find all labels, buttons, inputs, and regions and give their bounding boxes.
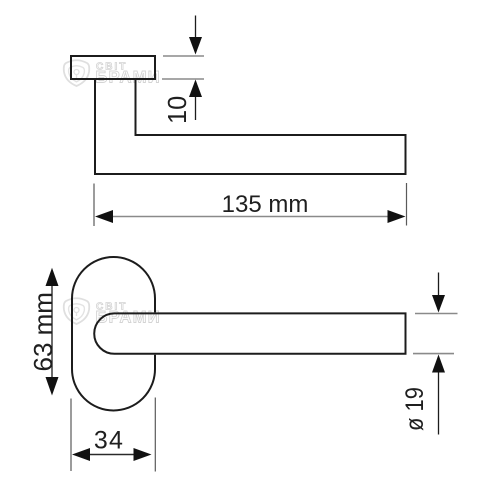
dimension 63mm: lower arrowhead pointing down bbox=[46, 377, 59, 396]
svg-text:10: 10 bbox=[164, 96, 192, 124]
dimension ø19: upper arrowhead pointing down bbox=[432, 295, 445, 313]
watermark top: shield icon bbox=[64, 60, 90, 86]
dimension 135mm: left arrowhead bbox=[95, 210, 113, 223]
svg-text:ø 19: ø 19 bbox=[401, 387, 429, 431]
oval rose (front view stadium, right edge interrupted by grip) bbox=[72, 257, 155, 410]
dimension 135mm: right arrowhead bbox=[388, 210, 406, 223]
dimension 135mm: right extension line bbox=[406, 183, 408, 226]
svg-text:63 mm: 63 mm bbox=[28, 292, 58, 371]
handle grip (front view) bbox=[94, 313, 405, 353]
dimension 10: upper arrow line bbox=[195, 16, 197, 38]
dimension 10: upper arrowhead pointing down bbox=[189, 37, 202, 55]
dimension 34: right arrowhead bbox=[134, 448, 152, 461]
dimension 10: extension line at rose top bbox=[163, 55, 204, 57]
watermark bottom: shield icon bbox=[64, 298, 90, 324]
dimension 135mm: dimension line bbox=[108, 216, 392, 218]
svg-text:135 mm: 135 mm bbox=[222, 191, 309, 218]
svg-text:БРАМИ: БРАМИ bbox=[96, 309, 161, 327]
dimension 10: lower arrow line bbox=[195, 97, 197, 120]
dimension 63mm: upper arrow line bbox=[51, 286, 53, 377]
rose plate (side view rectangle) bbox=[71, 56, 155, 79]
handle neck and lever outline (side view) bbox=[95, 79, 406, 174]
svg-text:34: 34 bbox=[94, 427, 124, 455]
dimension ø19: lower arrow line bbox=[438, 373, 440, 435]
dimension 135mm: left extension line bbox=[93, 184, 95, 227]
dimension 34: left arrowhead bbox=[72, 448, 90, 461]
dimension ø19: bottom extension line bbox=[413, 353, 454, 355]
dimension 34: right extension line bbox=[154, 398, 156, 472]
dimension 10: lower arrowhead pointing up bbox=[189, 80, 202, 98]
dimension ø19: lower arrowhead pointing up bbox=[432, 355, 445, 373]
dimension 10: extension line at rose bottom bbox=[162, 78, 204, 80]
dimension 34: dimension line bbox=[85, 454, 140, 456]
dimension 34: left extension line bbox=[70, 399, 72, 472]
dimension ø19: top extension line bbox=[415, 313, 458, 315]
svg-text:БРАМИ: БРАМИ bbox=[96, 69, 161, 87]
dimension ø19: upper arrow line bbox=[438, 273, 440, 296]
dimension 63mm: upper arrowhead pointing up bbox=[46, 268, 59, 286]
